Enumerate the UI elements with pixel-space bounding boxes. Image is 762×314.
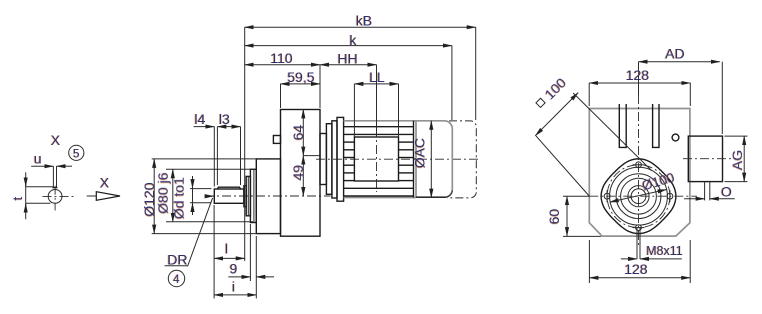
phantom extended cowl [447, 121, 476, 198]
shaft section circle [48, 190, 62, 204]
dimension 49 line [302, 156, 304, 196]
dimension u line with inward arrows [31, 165, 53, 167]
centerline horizontal of detail [43, 195, 74, 197]
dimension AG [743, 136, 745, 182]
extension line 59,5 left [280, 84, 282, 108]
extension lines l / i left [213, 205, 215, 299]
output axis centerline [205, 195, 331, 197]
dimension O120 line [153, 159, 155, 234]
terminal box centerline vertical [376, 128, 378, 192]
front view center vertical [638, 62, 640, 95]
svg-text:DR: DR [167, 252, 187, 268]
bearing cover ring 2 [246, 176, 250, 215]
bearing hub ring 1 [244, 186, 246, 207]
extensions 128 bottom [588, 240, 590, 283]
dimension M8x11 [621, 258, 637, 260]
svg-text:k: k [350, 32, 358, 48]
dimension 128 bottom [589, 277, 690, 279]
motor flange [337, 117, 344, 201]
svg-text:X: X [100, 175, 110, 191]
extension O120 top [152, 158, 257, 160]
view direction arrow X [87, 195, 97, 197]
dimension LL [354, 83, 398, 85]
extension 60 bottom [563, 235, 601, 237]
motor axis centerline [316, 158, 480, 160]
svg-text:kB: kB [356, 12, 372, 28]
internal split line for 64/49 [303, 155, 320, 157]
bearing cover inner step lines [247, 176, 249, 215]
gearcase front section (flange dia 120) [256, 159, 280, 234]
dimension HH [320, 64, 377, 66]
svg-text:l4: l4 [195, 111, 206, 127]
dimension 59,5 [281, 83, 321, 85]
terminal box outer [354, 137, 398, 181]
dimension OAC line [430, 121, 432, 198]
front view center horizontal [563, 195, 589, 197]
extension line housing right edge [319, 65, 321, 108]
motor adapter ring B [326, 124, 332, 195]
bolt circle dash-dot [607, 165, 670, 228]
svg-text:l3: l3 [219, 111, 230, 127]
dimension 60 [566, 196, 568, 236]
svg-text:128: 128 [626, 67, 650, 83]
extension line right kB [475, 27, 477, 120]
svg-text:AG: AG [729, 150, 745, 170]
svg-text:60: 60 [546, 209, 562, 225]
dimension O100 line [610, 190, 667, 203]
centerline vertical of detail [54, 186, 56, 211]
svg-text:59,5: 59,5 [287, 69, 314, 85]
fan cowl black corner arc [446, 190, 453, 197]
extension O80 top/bottom [166, 168, 253, 170]
bolt hole right [667, 193, 673, 199]
svg-text:110: 110 [270, 50, 293, 66]
keyway bottom mark [52, 187, 57, 189]
t extension top line [26, 186, 53, 188]
svg-text:X: X [51, 132, 61, 148]
extension line HH center of box [376, 65, 378, 137]
extension lines l4/l3 [213, 127, 215, 187]
keyway slot walls [52, 166, 54, 188]
svg-text:l: l [225, 241, 228, 257]
extension line left kB/k/110/l [244, 27, 246, 261]
extension O120 bottom [152, 233, 256, 235]
balloon circle 4 [168, 270, 184, 286]
dimension sq100 line [535, 93, 578, 136]
bolt hole bottom [636, 225, 642, 231]
svg-text:t: t [11, 196, 25, 200]
extension line right k [451, 46, 453, 120]
extension Od top/bottom [190, 188, 212, 190]
fan cowl bottom dark line [416, 196, 446, 198]
bearing cover ring 3 [250, 169, 256, 222]
sq100 extension lower [536, 136, 589, 196]
svg-text:4: 4 [173, 274, 180, 286]
flange scallop outline [601, 159, 676, 234]
svg-text:Ød to1: Ød to1 [171, 177, 187, 219]
stator end line [413, 121, 415, 198]
extensions AG [725, 135, 748, 137]
svg-text:9: 9 [230, 261, 238, 277]
sq100 extension upper [573, 93, 651, 171]
svg-text:128: 128 [624, 261, 648, 277]
motor fins [344, 127, 414, 196]
extensions 128 top [588, 83, 590, 106]
housing square gray [589, 109, 690, 237]
bolt hole ticks [607, 165, 670, 228]
motor adapter ring C [332, 121, 337, 198]
terminal box front view [688, 136, 722, 182]
slot right [653, 104, 659, 147]
dimension AD [639, 61, 720, 63]
key on shaft [217, 187, 240, 189]
svg-text:i: i [232, 279, 235, 295]
slot left [619, 104, 626, 147]
svg-text:u: u [34, 150, 42, 166]
dimension Od line with outside arrows [192, 176, 194, 215]
label sq100 [533, 74, 570, 111]
bolt hole top [636, 162, 642, 168]
svg-text:O: O [721, 183, 732, 199]
fan cowl gray [416, 121, 452, 197]
small hole top-right [672, 134, 679, 141]
output shaft [214, 189, 244, 203]
M8 hole extension pair [636, 228, 638, 259]
gland lines below box [704, 182, 706, 201]
svg-text:AD: AD [665, 46, 684, 62]
extension lines LL [353, 84, 355, 137]
motor barrel gray outline [344, 120, 416, 122]
dimension 128 top [589, 82, 690, 84]
motor adapter ring A [320, 134, 326, 185]
svg-text:5: 5 [73, 148, 79, 160]
dimension O80 line [172, 169, 174, 222]
box centerline [683, 158, 736, 160]
extension 9 left (cover face) [249, 224, 251, 281]
extension housing face / 9 right / i right [255, 236, 257, 299]
gearcase main housing [281, 110, 321, 237]
flange circles [610, 167, 668, 225]
dimension 110 [245, 64, 320, 66]
svg-text:Ø80 j6: Ø80 j6 [155, 172, 171, 213]
t extension bottom line [26, 202, 51, 204]
svg-text:HH: HH [337, 50, 357, 66]
dimension k [245, 45, 452, 47]
balloon circle 5 [69, 145, 84, 160]
svg-text:M8x11: M8x11 [646, 244, 683, 258]
small boss tab on housing [273, 136, 280, 144]
extension AD right [721, 62, 723, 134]
dimension O [684, 198, 705, 200]
leader DR to shaft [188, 198, 213, 267]
dimension t line with outside arrows [25, 172, 27, 219]
svg-text:ØAC: ØAC [412, 138, 428, 168]
svg-text:LL: LL [369, 69, 385, 85]
dimension 64 line [302, 109, 304, 155]
bolt hole left [604, 193, 610, 199]
dimension kB [245, 26, 476, 28]
